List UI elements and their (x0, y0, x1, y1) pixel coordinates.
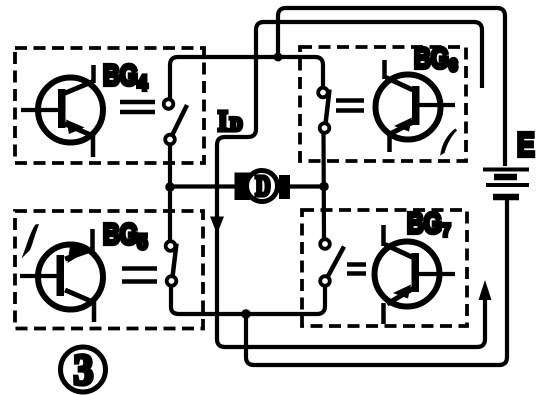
equals sign for BG6 (336, 101, 364, 111)
svg-text:D: D (230, 114, 242, 135)
transistor BG6 (376, 60, 456, 152)
switch S7 (open) for BG7 (320, 239, 344, 286)
annotation arrow in BG5 box (22, 224, 40, 259)
switch S4 (open) for BG4 (164, 99, 187, 144)
svg-text:D: D (256, 172, 271, 203)
node: left motor junction dot (165, 182, 175, 192)
equals sign for BG5 (122, 269, 157, 282)
switch S5 (closed) for BG5 (166, 241, 177, 286)
annotation mark in BG6 box (440, 129, 457, 156)
dashed box BG4 (15, 48, 204, 163)
wire: outer top rail from node A to battery + (278, 8, 505, 166)
wire: top horizontal feeding BG4 and BG6 switches (170, 57, 323, 99)
wire: inner current-path loop with ID branch (217, 22, 485, 347)
transistor BG4 (21, 65, 103, 157)
switch S6 (closed) for BG6 (318, 88, 329, 133)
svg-text:3: 3 (74, 345, 94, 393)
svg-text:BG: BG (407, 206, 442, 239)
wire: left rail BG4 switch to BG5 switch (168, 144, 172, 242)
dashed box BG6 (300, 47, 466, 161)
dashed box BG7 (302, 210, 467, 326)
arrow: return current direction (up) (479, 280, 492, 300)
svg-text:BG: BG (103, 58, 138, 91)
wire: motor right lead (290, 184, 324, 188)
arrow: ID current direction (down) (210, 217, 224, 235)
svg-text:I: I (218, 105, 228, 137)
node: bottom junction dot (241, 309, 251, 319)
wire: right rail BG6 switch to BG7 switch (321, 133, 326, 239)
node: right motor junction dot (319, 182, 329, 192)
svg-text:BG: BG (414, 41, 449, 74)
node A junction dot (274, 53, 283, 62)
equals sign for BG7 (347, 265, 366, 274)
transistor BG7 (375, 225, 456, 324)
svg-text:4: 4 (138, 72, 148, 96)
wire: motor left lead (170, 184, 236, 188)
transistor BG5 (20, 229, 103, 322)
wire: bottom rail BG5 switch to BG7 switch (171, 285, 325, 314)
svg-text:7: 7 (442, 220, 451, 240)
svg-text:6: 6 (449, 55, 458, 75)
equals sign for BG4 (120, 102, 155, 112)
svg-text:E: E (517, 127, 535, 163)
svg-text:BG: BG (103, 217, 138, 250)
svg-text:5: 5 (138, 231, 148, 255)
dashed box BG5 (15, 211, 203, 329)
motor D (235, 171, 291, 202)
figure number 3 (61, 347, 106, 392)
battery E (483, 170, 529, 198)
wire: battery negative return (246, 200, 507, 365)
